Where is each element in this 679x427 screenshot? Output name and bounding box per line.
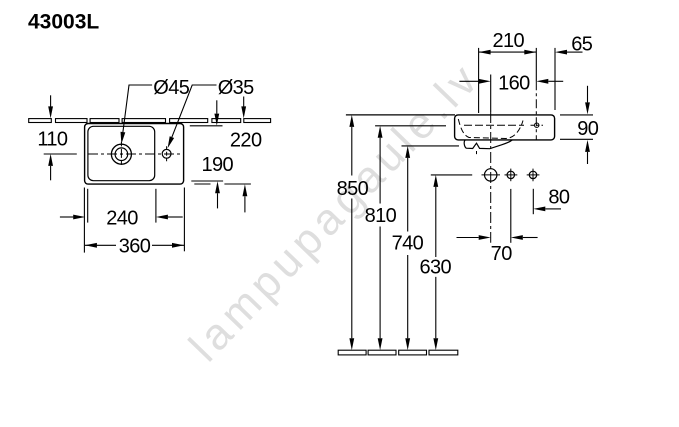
center line drain (front)	[490, 75, 492, 113]
ext/center line tap hole	[535, 48, 537, 81]
svg-text:810: 810	[365, 205, 397, 227]
drain hole Ø45 (top view)	[111, 144, 131, 164]
svg-text:43003L: 43003L	[28, 10, 99, 33]
wall/rim reference line (850)	[346, 114, 455, 116]
center line horizontal (top view)	[44, 153, 77, 155]
height dim 740	[405, 146, 410, 158]
svg-text:Ø45: Ø45	[153, 77, 189, 99]
svg-text:630: 630	[420, 257, 452, 279]
dim 240 ext lines	[83, 188, 85, 253]
basin inner bowl (top view)	[88, 126, 155, 180]
svg-text:65: 65	[571, 33, 593, 55]
dim 210	[479, 51, 537, 53]
svg-text:850: 850	[337, 178, 369, 200]
ref line 810	[375, 125, 446, 127]
tap hole (front, hidden)	[535, 123, 539, 127]
dim 160	[459, 80, 478, 82]
hidden bowl contour (dashed)	[458, 119, 523, 139]
svg-text:360: 360	[119, 236, 151, 258]
svg-text:Ø35: Ø35	[218, 77, 254, 99]
dim 70	[457, 237, 479, 239]
dim 65	[555, 50, 567, 55]
ref line 630	[431, 174, 472, 176]
basin outer outline (top view)	[85, 124, 184, 185]
ext line inner top	[190, 125, 223, 127]
dim 90	[560, 114, 593, 116]
svg-text:220: 220	[230, 129, 262, 151]
dim 220	[243, 97, 245, 107]
dim 80	[533, 207, 545, 212]
fixing holes	[485, 169, 497, 181]
ext line 210 left	[478, 48, 480, 113]
tap hole Ø35 (top view)	[162, 149, 171, 158]
svg-text:90: 90	[577, 118, 599, 140]
dim 190	[216, 100, 218, 113]
svg-text:80: 80	[548, 186, 570, 208]
basin front outline	[455, 115, 555, 140]
ref line 740	[402, 145, 460, 147]
ext line right edge	[554, 48, 556, 110]
dim 70 ext lines	[510, 189, 512, 243]
wall section (top view)	[29, 119, 271, 123]
leader Ø45	[123, 85, 152, 132]
height dim 850	[349, 115, 354, 127]
height dim 630	[433, 175, 438, 187]
dim 80 ext line	[532, 189, 534, 214]
svg-text:240: 240	[106, 208, 138, 230]
ext line inner bottom	[191, 180, 223, 182]
floor tiles	[338, 350, 458, 355]
dim 240	[60, 216, 74, 218]
svg-text:70: 70	[491, 243, 513, 265]
svg-text:160: 160	[498, 73, 530, 95]
svg-text:740: 740	[392, 233, 424, 255]
ext line outer bottom	[194, 183, 251, 185]
leader Ø35	[172, 85, 217, 137]
svg-text:110: 110	[37, 128, 68, 150]
height dim 810	[378, 126, 383, 138]
dim 360	[85, 244, 184, 246]
siphon / trap	[464, 140, 512, 149]
dim 110	[50, 95, 52, 106]
svg-text:210: 210	[493, 30, 525, 52]
svg-text:190: 190	[202, 154, 234, 176]
